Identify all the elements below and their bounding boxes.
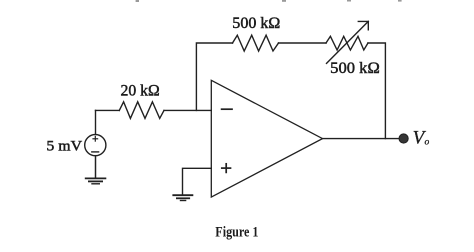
wire: inverting input line (source corner to op-amp) [96,109,120,111]
resistor R2 500 kOhm (fixed) [233,35,279,51]
wire: source top lead [95,110,97,134]
resistor R1 20 kOhm [119,102,164,119]
cropped text remnants at top edge [136,0,402,2]
wire: non-inverting input to ground [183,168,212,195]
wire: R3 to right corner, down to output node [368,43,385,139]
label: Vo (output voltage) [413,128,430,149]
wire: op-amp output to node Vo [323,138,401,140]
voltage source VS 5 mV [85,135,106,156]
wire: source bottom lead [95,156,97,178]
wire: R1 to op-amp inverting input [164,109,211,111]
svg-text:o: o [425,137,430,147]
svg-text:5 mV: 5 mV [46,138,82,154]
svg-text:500 kΩ: 500 kΩ [330,60,380,77]
svg-text:20 kΩ: 20 kΩ [121,82,160,99]
wire: top feedback from left corner to R2 [196,43,232,110]
node Vo (output terminal dot) [399,134,408,143]
op-amp U1 [211,80,322,197]
svg-text:500 kΩ: 500 kΩ [232,15,280,32]
wire: between R2 and R3 [279,42,327,44]
potentiometer R3 500 kOhm (variable) [326,21,368,63]
ground G2 (below non-inverting input) [173,195,192,200]
svg-text:Figure 1: Figure 1 [215,225,258,241]
ground G1 (below source) [86,178,106,183]
